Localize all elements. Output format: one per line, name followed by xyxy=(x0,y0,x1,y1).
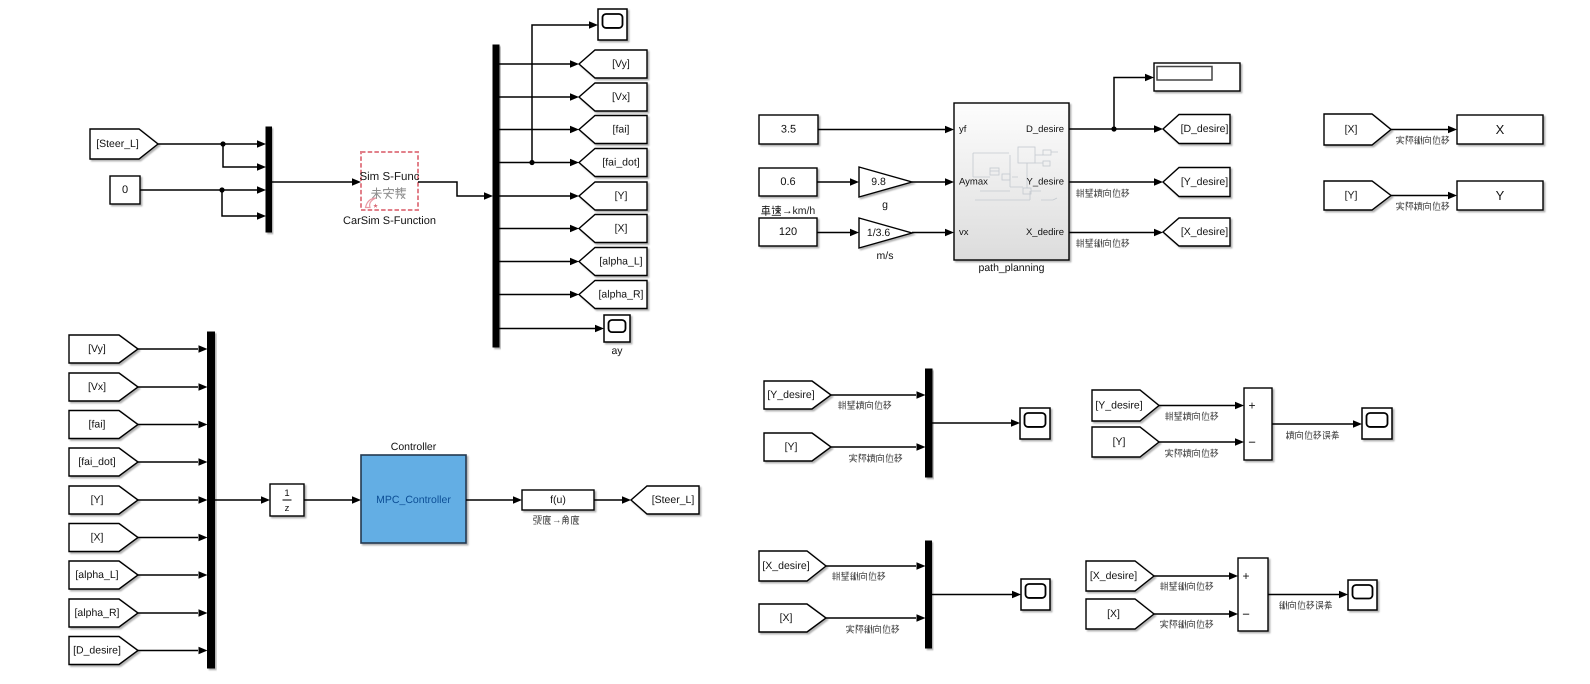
wire Demux1 to goto [X] xyxy=(499,228,570,230)
wire Mux1 to CarSim S-Function xyxy=(272,181,353,183)
wire [X] to outport X xyxy=(1391,129,1448,131)
svg-text:[Steer_L]: [Steer_L] xyxy=(96,138,139,150)
from tag [Vx] xyxy=(69,373,138,401)
wire from [fai_dot] to Mux2 xyxy=(138,461,198,463)
svg-text:f(u): f(u) xyxy=(550,494,566,506)
svg-text:MPC_Controller: MPC_Controller xyxy=(376,494,451,506)
goto tag [Steer_L] xyxy=(631,486,699,514)
scope Scope3 xyxy=(1362,408,1392,439)
svg-text:[D_desire]: [D_desire] xyxy=(1181,123,1229,135)
svg-text:[Vx]: [Vx] xyxy=(612,91,630,103)
svg-text:ay: ay xyxy=(611,345,623,357)
svg-text:[X]: [X] xyxy=(91,532,104,544)
wire gain m/s to path_planning vx xyxy=(912,232,945,234)
label 弧度→角度 xyxy=(534,515,579,526)
from tag [X_desire] (H group) xyxy=(759,551,826,581)
svg-text:[alpha_R]: [alpha_R] xyxy=(599,289,644,301)
display Display xyxy=(1154,63,1240,91)
wire Mux2 to Unit Delay xyxy=(215,499,262,501)
wire X_dedire to goto [X_desire] xyxy=(1069,232,1154,234)
svg-text:+: + xyxy=(1242,569,1249,583)
goto tag [Vx] xyxy=(579,83,647,111)
scope ay xyxy=(604,315,630,342)
svg-text:Y_desire: Y_desire xyxy=(1027,177,1065,188)
wire branch up to Display xyxy=(1114,78,1145,130)
svg-text:[X]: [X] xyxy=(780,612,793,624)
svg-text:X: X xyxy=(1496,122,1505,137)
label 实际横向位移 (E group) xyxy=(1397,202,1449,210)
svg-text:D_desire: D_desire xyxy=(1026,124,1064,135)
wire Unit Delay to MPC_Controller xyxy=(304,499,352,501)
subsystem path_planning xyxy=(954,103,1069,260)
label 期望纵向位移 (D group) xyxy=(1077,239,1129,247)
label 期望横向位移 (F group) xyxy=(839,401,891,409)
svg-text:[fai_dot]: [fai_dot] xyxy=(602,157,639,169)
svg-text:Aymax: Aymax xyxy=(959,177,988,188)
svg-text:g: g xyxy=(882,199,888,211)
svg-text:−: − xyxy=(1242,607,1250,622)
goto tag [Y] xyxy=(579,182,647,210)
wire MPC_Controller to Fcn xyxy=(466,499,513,501)
label 纵向位移误差 xyxy=(1280,601,1332,609)
goto tag [X] xyxy=(579,215,647,243)
label 期望纵向位移 (H group) xyxy=(833,572,885,580)
label 期望纵向位移 (I group) xyxy=(1161,582,1213,590)
goto tag [alpha_L] xyxy=(579,248,647,276)
svg-text:[Vy]: [Vy] xyxy=(612,58,630,70)
wire [Y] to Sum1 - xyxy=(1159,441,1235,443)
svg-text:→km/h: →km/h xyxy=(782,205,815,217)
wire D_desire to goto [D_desire] xyxy=(1069,128,1154,130)
wire from [Vx] to Mux2 xyxy=(138,386,198,388)
gain 1/3.6 (m/s) xyxy=(859,218,912,248)
wire Demux1 to goto [Vx] xyxy=(499,96,570,98)
from tag [fai_dot] xyxy=(69,448,138,476)
wire Demux1 to goto [alpha_L] xyxy=(499,261,570,263)
goto tag [D_desire] xyxy=(1163,115,1230,144)
wire branch to Mux1 input 2 xyxy=(223,144,257,167)
goto tag [fai_dot] xyxy=(579,149,647,177)
wire Demux1 to scope ay xyxy=(499,328,595,330)
svg-text:[alpha_L]: [alpha_L] xyxy=(599,256,642,268)
wire Y_desire to goto [Y_desire] xyxy=(1069,181,1154,183)
label 期望横向位移 (D group) xyxy=(1077,189,1129,197)
from tag [Steer_L] xyxy=(90,129,158,159)
svg-text:[alpha_L]: [alpha_L] xyxy=(75,569,118,581)
scope Scope1 xyxy=(598,9,627,40)
from tag [alpha_R] xyxy=(69,599,138,627)
from tag [Y] (top right) xyxy=(1324,181,1391,210)
svg-text:vx: vx xyxy=(959,227,969,238)
wire Demux1 to goto [Vy] xyxy=(499,63,570,65)
svg-text:[Y]: [Y] xyxy=(91,494,104,506)
mux Mux3 xyxy=(926,369,933,477)
svg-text:yf: yf xyxy=(959,124,967,135)
wire from [alpha_L] to Mux2 xyxy=(138,574,198,576)
block X xyxy=(1457,115,1543,144)
svg-text:120: 120 xyxy=(779,226,797,238)
wire 3.5 to path_planning yf xyxy=(818,129,945,131)
svg-text:Sim S-Func: Sim S-Func xyxy=(359,171,419,183)
goto tag [X_desire] xyxy=(1163,218,1230,246)
svg-text:z: z xyxy=(285,503,290,514)
svg-text:Y: Y xyxy=(1496,188,1505,203)
label 实际横向位移 (G group) xyxy=(1166,449,1218,457)
wire [Steer_L] to Mux1 input 1 xyxy=(158,143,257,145)
label 横向位移误差 xyxy=(1286,431,1338,439)
svg-text:9.8: 9.8 xyxy=(871,176,886,188)
svg-text:[Y]: [Y] xyxy=(615,190,628,202)
label 车速→km/h xyxy=(762,205,816,217)
svg-text:+: + xyxy=(1248,399,1255,413)
svg-text:CarSim S-Function: CarSim S-Function xyxy=(343,215,436,227)
from tag [X_desire] (I group) xyxy=(1086,561,1154,591)
from tag [alpha_L] xyxy=(69,561,138,589)
sum Sum1 xyxy=(1244,388,1272,460)
junction on [fai_dot] wire xyxy=(529,160,534,165)
wire 120 to gain m/s xyxy=(817,232,850,234)
svg-text:[Y]: [Y] xyxy=(1113,436,1126,448)
wire from [Vy] to Mux2 xyxy=(138,348,198,350)
from tag [X] (I group) xyxy=(1086,599,1154,629)
wire CarSim to Demux1 xyxy=(418,182,484,196)
wire [X] to Sum2 - xyxy=(1154,613,1229,615)
wire 0.6 to gain g xyxy=(817,181,850,183)
from tag [fai] xyxy=(69,411,138,439)
wire branch to Mux1 input 4 xyxy=(222,190,257,216)
wire from [Y] to Mux2 xyxy=(138,499,198,501)
svg-text:−: − xyxy=(1248,435,1256,450)
svg-text:0.6: 0.6 xyxy=(780,176,795,188)
wire from [alpha_R] to Mux2 xyxy=(138,612,198,614)
from tag [Y_desire] (G group) xyxy=(1092,390,1159,421)
from tag [Y_desire] (F group) xyxy=(764,381,831,409)
wire Sum2 to Scope5 xyxy=(1268,594,1339,596)
svg-text:3.5: 3.5 xyxy=(781,124,796,136)
goto tag [Y_desire] xyxy=(1163,168,1230,197)
scope Scope5 xyxy=(1348,580,1377,610)
wire from [fai] to Mux2 xyxy=(138,424,198,426)
svg-text:[X]: [X] xyxy=(1345,124,1358,136)
subsystem MPC_Controller xyxy=(361,455,466,543)
junction on D_desire wire xyxy=(1111,126,1116,131)
svg-text:[Y]: [Y] xyxy=(1345,190,1358,202)
svg-text:[Vx]: [Vx] xyxy=(88,381,106,393)
wire constant 0 to Mux1 input 3 xyxy=(140,189,257,191)
mux Mux1 xyxy=(266,127,272,232)
block Y xyxy=(1457,181,1543,210)
wire [Y] to Mux3 xyxy=(831,446,916,448)
svg-text:[X_desire]: [X_desire] xyxy=(1181,226,1228,238)
svg-text:[Y]: [Y] xyxy=(785,441,798,453)
gain 9.8 (g) xyxy=(859,167,912,197)
svg-text:1: 1 xyxy=(284,488,289,499)
label 实际纵向位移 (E group) xyxy=(1397,136,1449,144)
wire from [D_desire] to Mux2 xyxy=(138,650,198,652)
label 实际纵向位移 (H group) xyxy=(847,625,899,633)
from tag [Y] (G group) xyxy=(1092,427,1159,457)
wire Mux4 to Scope4 xyxy=(932,594,1013,596)
demux Demux1 xyxy=(493,45,499,347)
wire [Y] to outport Y xyxy=(1391,195,1448,197)
sum Sum2 xyxy=(1238,558,1268,631)
scope Scope4 xyxy=(1021,579,1050,610)
mux Mux4 xyxy=(926,541,932,648)
wire Sum1 to Scope3 xyxy=(1272,423,1353,425)
from tag [Y] (F group) xyxy=(764,433,831,461)
svg-text:[Y_desire]: [Y_desire] xyxy=(767,389,814,401)
wire [X_desire] to Sum2 + xyxy=(1154,575,1229,577)
wire branch up to Scope1 xyxy=(532,25,589,163)
svg-text:1/3.6: 1/3.6 xyxy=(867,227,891,239)
wire [X] to Mux4 xyxy=(826,617,916,619)
svg-text:[fai]: [fai] xyxy=(89,419,106,431)
svg-text:[Steer_L]: [Steer_L] xyxy=(652,494,695,506)
from tag [Vy] xyxy=(69,335,138,363)
svg-text:→: → xyxy=(552,515,562,526)
svg-text:[X_desire]: [X_desire] xyxy=(762,560,809,572)
svg-text:path_planning: path_planning xyxy=(979,262,1045,274)
label 实际横向位移 (F group) xyxy=(850,454,902,462)
junction on constant wire xyxy=(219,187,224,192)
svg-text:[D_desire]: [D_desire] xyxy=(73,645,121,657)
fcn block f(u) xyxy=(522,490,594,510)
wire Demux1 to goto [alpha_R] xyxy=(499,294,570,296)
wire gain g to path_planning Aymax xyxy=(912,181,945,183)
unit delay 1/z xyxy=(270,484,304,516)
mux Mux2 xyxy=(208,332,215,668)
constant 120 xyxy=(759,218,817,246)
svg-text:m/s: m/s xyxy=(877,250,894,262)
wire Demux1 to goto [fai] xyxy=(499,129,570,131)
goto tag [Vy] xyxy=(579,50,647,78)
constant 0 xyxy=(110,176,140,204)
svg-text:[X]: [X] xyxy=(1107,608,1120,620)
scope Scope2 xyxy=(1020,408,1050,439)
from tag [X] (top right) xyxy=(1324,114,1391,145)
wire from [X] to Mux2 xyxy=(138,537,198,539)
from tag [D_desire] xyxy=(69,637,138,665)
from tag [X] xyxy=(69,524,138,552)
svg-text:0: 0 xyxy=(122,184,128,196)
goto tag [fai] xyxy=(579,116,647,144)
wire [Y_desire] to Sum1 + xyxy=(1159,405,1235,407)
junction on [Steer_L] wire xyxy=(220,141,225,146)
svg-text:[Y_desire]: [Y_desire] xyxy=(1095,400,1142,412)
svg-text:[X_desire]: [X_desire] xyxy=(1090,570,1137,582)
label 实际纵向位移 (I group) xyxy=(1161,620,1213,628)
goto tag [alpha_R] xyxy=(579,281,647,309)
wire [Y_desire] to Mux3 xyxy=(831,394,916,396)
svg-text:[fai]: [fai] xyxy=(613,124,630,136)
constant 0.6 xyxy=(759,168,817,196)
wire Fcn to goto [Steer_L] xyxy=(594,499,622,501)
from tag [X] (H group) xyxy=(759,604,826,632)
svg-text:[X]: [X] xyxy=(615,223,628,235)
wire Demux1 to goto [Y] xyxy=(499,195,570,197)
svg-text:X_dedire: X_dedire xyxy=(1026,227,1064,238)
label 期望横向位移 (G group) xyxy=(1166,412,1218,420)
svg-text:[fai_dot]: [fai_dot] xyxy=(78,456,115,468)
s-function block CarSim (Sim S-Func 未安装) xyxy=(359,152,419,210)
wire Demux1 to goto [fai_dot] xyxy=(499,162,570,164)
constant 3.5 xyxy=(759,115,818,144)
wire [X_desire] to Mux4 xyxy=(826,565,916,567)
from tag [Y] xyxy=(69,486,138,514)
svg-text:[Y_desire]: [Y_desire] xyxy=(1181,176,1228,188)
wire Mux3 to Scope2 xyxy=(932,422,1011,424)
svg-text:[Vy]: [Vy] xyxy=(88,343,106,355)
svg-text:[alpha_R]: [alpha_R] xyxy=(75,607,120,619)
svg-text:Controller: Controller xyxy=(391,441,437,453)
